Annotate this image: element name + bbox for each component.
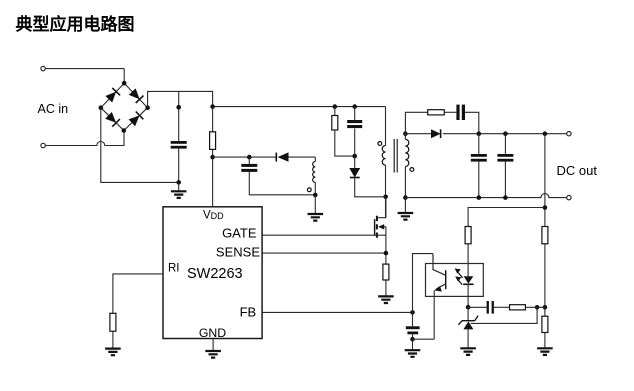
resistor R9 (RI set) <box>110 313 116 331</box>
wire rail to primary <box>385 107 387 146</box>
junction V+ / C5 <box>477 131 482 136</box>
wire rail to R1 <box>212 107 214 132</box>
wire output V+ rail <box>443 133 567 135</box>
svg-text:DC out: DC out <box>557 163 598 178</box>
ground (sense) <box>378 296 394 303</box>
optocoupler U2 body <box>426 264 484 297</box>
ground (primary bulk) <box>171 191 187 198</box>
capacitor C5 (output filter) <box>471 154 487 162</box>
junction V+ / divider <box>543 131 548 136</box>
optocoupler U2 light arrows <box>455 268 463 284</box>
ground (RI) <box>105 349 121 356</box>
wire bridge negative to C1 ground <box>101 108 179 183</box>
wire SENSE pin to source <box>262 252 386 254</box>
wire drain <box>385 197 387 218</box>
capacitor C1 (bulk filter) <box>171 141 187 149</box>
wire C1 to ground node <box>178 149 180 183</box>
wire V+ to C5 <box>478 134 480 154</box>
capacitor C7 (FB filter) <box>406 326 420 334</box>
wire source to R4 <box>385 227 387 264</box>
wire secondary to output return <box>404 167 406 198</box>
junction HV rail / R1 <box>210 104 215 109</box>
wire to secondary <box>404 134 406 140</box>
IC U1 SW2263 body <box>163 207 262 339</box>
transformer T1 primary winding <box>382 146 385 166</box>
junction divider / opto branch <box>543 205 548 210</box>
junction rail / R2 <box>333 104 338 109</box>
ground (aux winding) <box>308 214 324 221</box>
ground (divider) <box>537 348 553 355</box>
wire C6 to V- rail <box>504 161 506 198</box>
resistor R2 (clamp) <box>332 116 338 131</box>
wire R5 to opto LED <box>467 244 469 276</box>
junction sense node <box>384 251 389 256</box>
wire FB node to opto collector <box>413 254 434 313</box>
wire bridge positive jog to HV rail <box>148 91 213 107</box>
junction C1 ground node <box>176 180 181 185</box>
wire to C2 <box>248 157 250 164</box>
wire C2 to aux return <box>249 172 315 195</box>
svg-text:SW2263: SW2263 <box>187 266 243 282</box>
wire U3 anode to ground <box>467 329 469 348</box>
wire to ground <box>412 339 414 350</box>
wire to C8 <box>468 306 487 308</box>
wire R7 to ground <box>544 333 546 349</box>
phase dot (aux winding) <box>307 188 311 192</box>
wire C7 to ground node <box>412 334 414 339</box>
optocoupler U2 LED <box>463 276 473 284</box>
ground (FB) <box>405 350 421 357</box>
wire bridge edge BL <box>101 108 124 131</box>
wire opto branch <box>468 208 545 227</box>
wire D6 to drain node <box>355 178 386 197</box>
svg-text:SENSE: SENSE <box>216 244 260 259</box>
wire to ground <box>314 195 316 214</box>
wire opto emitter down <box>433 290 435 339</box>
junction FB node <box>410 310 415 315</box>
resistor R8 (compensation) <box>510 305 526 310</box>
svg-text:RI: RI <box>168 262 180 274</box>
capacitor C8 (compensation) <box>487 301 494 314</box>
svg-text:典型应用电路图: 典型应用电路图 <box>16 14 135 34</box>
capacitor C2 (VDD) <box>241 164 257 172</box>
wire R3 to C4 <box>444 111 456 113</box>
wire C3 to clamp node <box>354 128 356 156</box>
resistor R6 (divider upper) <box>542 227 548 244</box>
phase dot (primary) <box>378 142 382 146</box>
wire output V- rail (with crossover hump) <box>405 194 566 198</box>
wire opto emitter to ground node <box>413 338 435 340</box>
svg-text:VDD: VDD <box>203 210 224 222</box>
bridge diode D4 (bottom-to-right) <box>129 112 144 127</box>
wire GND pin to ground <box>212 339 214 352</box>
junction rail / C3 <box>352 104 357 109</box>
wire FB node to C7 <box>412 312 414 326</box>
wire GATE pin to Q1 gate <box>262 234 386 236</box>
transformer T1 secondary winding <box>405 139 408 166</box>
wire secondary to snubber <box>405 112 427 133</box>
bridge diode D3 (left-to-bottom) <box>105 112 120 127</box>
svg-text:GATE: GATE <box>222 226 257 241</box>
inductor L1 (aux winding) <box>313 162 316 183</box>
wire D5 anode to aux winding <box>289 156 316 158</box>
junction bridge right node <box>145 105 150 110</box>
wire bridge edge BR <box>124 108 148 131</box>
wire C5 to V- rail <box>478 161 480 198</box>
ground (secondary) <box>398 213 414 220</box>
capacitor C4 (output snubber) <box>456 105 465 120</box>
wire FB pin to FB node <box>262 311 412 313</box>
AC input terminal (line) <box>41 66 45 70</box>
wire R6 to R7 <box>544 244 546 316</box>
wire to ground <box>404 198 406 213</box>
junction V- / C5 <box>477 195 482 200</box>
wire R2 to clamp node <box>335 130 355 156</box>
wire AC line to bridge <box>45 68 124 70</box>
svg-text:AC in: AC in <box>38 102 69 116</box>
wire R8 to divider mid <box>525 306 545 308</box>
wire AC neutral to bridge (with crossover hump) <box>45 131 124 146</box>
wire R1 to VDD pin <box>212 149 214 206</box>
junction clamp node <box>352 154 357 159</box>
ground (IC GND) <box>205 351 221 358</box>
wire secondary to D7 <box>405 133 431 135</box>
wire LED cathode down <box>467 284 469 307</box>
bridge diode D1 (left-to-top) <box>105 88 120 103</box>
wire R9 to ground <box>112 331 114 348</box>
junction secondary top <box>403 131 408 136</box>
wire HV rail <box>213 106 386 108</box>
wire rail to R2 <box>334 107 336 116</box>
junction VDD node <box>210 155 215 160</box>
junction divider mid <box>543 305 548 310</box>
wire VDD node to D5 cathode <box>213 156 277 158</box>
DC output terminal (-) <box>567 195 571 199</box>
junction aux return <box>313 193 318 198</box>
ground (shunt regulator) <box>460 348 476 355</box>
resistor R3 (output snubber) <box>428 110 445 115</box>
junction bridge left node <box>99 105 104 110</box>
diode D5 (VDD rectifier, cathode left) <box>276 152 288 161</box>
AC input terminal (neutral) <box>41 143 45 147</box>
resistor R1 (startup) <box>210 132 216 150</box>
wire C8 to R8 <box>494 306 510 308</box>
wire clamp node to D6 <box>354 156 356 168</box>
capacitor C3 (clamp) <box>347 120 362 128</box>
wire V+ to R6 (passes under hump) <box>544 134 546 227</box>
transformer T1 core <box>394 139 397 173</box>
MOSFET Q1 (power switch) <box>375 216 386 238</box>
wire bridge edge TR <box>124 83 147 108</box>
svg-text:GND: GND <box>199 326 226 340</box>
wire aux winding to ground node <box>314 182 316 195</box>
wire C4 to output rail <box>465 112 479 133</box>
capacitor C6 (output filter) <box>497 154 513 162</box>
junction V+ / C6 <box>503 131 508 136</box>
junction V- / C6 <box>503 195 508 200</box>
resistor R5 (opto LED series) <box>465 227 471 244</box>
wire primary to MOSFET drain <box>385 165 387 218</box>
wire V+ to C6 <box>504 134 506 154</box>
wire rail to C3 <box>354 107 356 120</box>
diode D7 (output rectifier) <box>431 129 441 138</box>
resistor R4 (current sense) <box>383 264 389 280</box>
wire RI pin to R9 <box>113 274 163 313</box>
junction VDD cap tap <box>247 155 252 160</box>
junction on C1 branch <box>176 105 181 110</box>
shunt regulator U3 (zener, cathode up) <box>458 316 478 330</box>
junction C7 ground node <box>410 337 415 342</box>
svg-text:FB: FB <box>240 305 257 320</box>
bridge diode D2 (top-to-right) <box>129 88 144 103</box>
junction opto LED / compensation <box>466 305 471 310</box>
optocoupler U2 phototransistor <box>433 254 446 292</box>
junction drain / clamp <box>383 195 388 200</box>
resistor R7 (divider lower) <box>542 316 548 332</box>
wire to U3 cathode <box>467 307 469 321</box>
junction bridge top node <box>122 81 127 86</box>
wire to ground <box>178 182 180 191</box>
wire rail to C1 <box>178 91 180 140</box>
wire U3 reference to divider mid <box>471 307 537 323</box>
phase dot (secondary) <box>410 168 414 172</box>
wire bridge edge TL <box>101 83 124 108</box>
diode D6 (clamp, cathode down) <box>350 168 360 177</box>
wire to aux winding <box>314 157 316 161</box>
wire R4 to ground <box>385 280 387 296</box>
junction secondary return <box>403 195 408 200</box>
junction reference / compensation <box>535 305 540 310</box>
DC output terminal (+) <box>567 132 571 136</box>
wire <box>123 69 125 84</box>
junction bridge bottom node <box>122 128 127 133</box>
